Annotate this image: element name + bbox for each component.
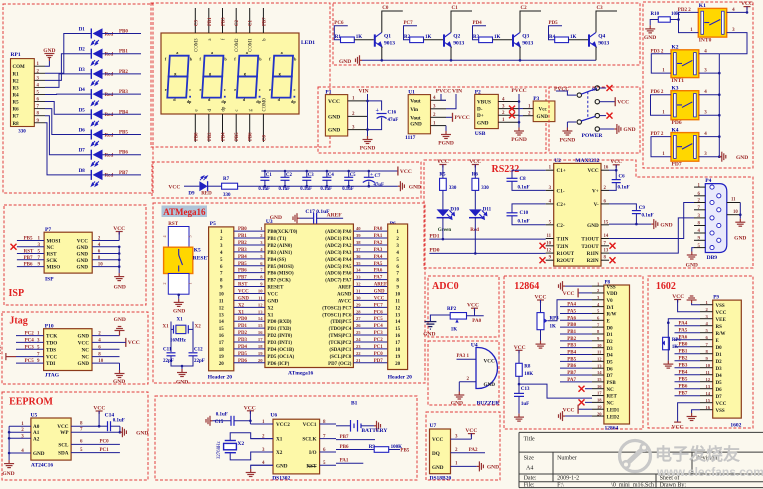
svg-text:PD7 (OC2): PD7 (OC2) [328, 362, 352, 367]
svg-text:VIN: VIN [452, 89, 462, 95]
wire P5 pin 9 to U3 [234, 286, 265, 288]
svg-text:15: 15 [395, 327, 401, 332]
svg-text:PB1: PB1 [238, 234, 247, 239]
wire R1 to Q1 base [354, 39, 374, 41]
DB9 pin 3 [694, 217, 705, 219]
svg-text:D1: D1 [607, 333, 614, 338]
svg-text:PB5: PB5 [679, 378, 688, 383]
wire U3 to P6 pin 7 [353, 272, 387, 274]
wire PC6 to base resistor R1 [334, 26, 348, 40]
svg-text:PC1: PC1 [100, 448, 110, 453]
svg-text:GND: GND [113, 379, 125, 385]
svg-text:(ADC5) PA5: (ADC5) PA5 [325, 265, 352, 270]
svg-text:GND: GND [276, 463, 288, 469]
svg-text:PC2: PC2 [374, 338, 384, 343]
svg-text:PB7: PB7 [340, 435, 349, 440]
svg-text:PB2: PB2 [679, 357, 688, 362]
svg-text:PVCC: PVCC [455, 115, 470, 121]
svg-text:e: e [165, 87, 167, 92]
svg-text:C10: C10 [520, 211, 529, 216]
svg-text:PD5: PD5 [238, 352, 248, 357]
wire P5 pin 7 to U3 [234, 272, 265, 274]
svg-text:16MHz: 16MHz [170, 339, 187, 344]
svg-text:PA5: PA5 [679, 329, 688, 334]
svg-text:0.1uF: 0.1uF [258, 187, 270, 192]
svg-text:PB2: PB2 [238, 241, 247, 246]
svg-text:I/O: I/O [309, 450, 317, 456]
svg-text:WP: WP [60, 430, 69, 436]
svg-text:10: 10 [706, 363, 711, 368]
svg-text:11: 11 [731, 198, 736, 203]
svg-text:R4: R4 [13, 93, 20, 98]
wire PD4 to base resistor R3 [473, 26, 487, 40]
wire R4 to Q4 base [569, 39, 589, 41]
svg-text:GND: GND [734, 236, 746, 242]
svg-text:PGND: PGND [360, 146, 376, 152]
wire R5 to D10 [442, 190, 444, 209]
svg-text:D2: D2 [607, 340, 614, 345]
svg-text:C9: C9 [639, 206, 646, 211]
svg-text:PC3: PC3 [25, 345, 35, 350]
wire U3 to P6 pin 5 [353, 258, 387, 260]
wire R6 to D11 [474, 190, 476, 209]
svg-text:(TOSC1) PC6: (TOSC1) PC6 [322, 313, 352, 318]
LED D9 RED power indicator [199, 181, 207, 191]
svg-text:PB6: PB6 [24, 263, 33, 268]
svg-text:15: 15 [706, 398, 711, 403]
svg-text:GND: GND [623, 127, 635, 133]
svg-text:Red: Red [470, 228, 479, 233]
svg-text:C14: C14 [105, 413, 115, 419]
svg-text:RP1: RP1 [11, 52, 21, 58]
svg-text:PC2: PC2 [25, 332, 35, 337]
wire P5 pin 3 to U3 [234, 244, 265, 246]
RP3 wiper to pin3 [548, 300, 593, 321]
U6 pin4 ground [251, 465, 273, 469]
svg-text:1K: 1K [494, 35, 501, 40]
svg-text:GND: GND [374, 289, 385, 294]
svg-text:PA3: PA3 [374, 248, 383, 253]
svg-text:PD2 (INT0): PD2 (INT0) [267, 334, 292, 339]
svg-text:VCC: VCC [672, 425, 684, 431]
svg-text:GND: GND [587, 223, 599, 229]
svg-text:VCC: VCC [716, 402, 727, 407]
1602 contrast pot [668, 319, 700, 338]
svg-text:C3: C3 [597, 6, 604, 11]
svg-text:PB7: PB7 [238, 276, 247, 281]
svg-text:VCC: VCC [267, 292, 278, 297]
svg-text:(ADC3) PA3: (ADC3) PA3 [325, 251, 352, 256]
svg-text:PA4: PA4 [567, 303, 576, 308]
svg-text:GND: GND [409, 185, 421, 191]
svg-text:MOSI: MOSI [47, 239, 61, 245]
svg-text:AREF: AREF [338, 286, 351, 291]
svg-text:(ADC2) PA2: (ADC2) PA2 [325, 244, 352, 249]
svg-text:GND: GND [114, 317, 126, 323]
junction at Q2 emitter [450, 59, 453, 62]
1602 pin1 to GND top [692, 303, 700, 305]
svg-text:C0: C0 [382, 6, 389, 11]
svg-text:PD1: PD1 [429, 233, 439, 239]
wire U3 to P6 pin 9 [353, 286, 387, 288]
svg-text:16: 16 [604, 166, 609, 171]
wire U3 to P6 pin 12 [353, 306, 387, 308]
RP1 pin 3 [34, 79, 45, 81]
svg-text:0.1uF: 0.1uF [518, 220, 530, 225]
wire D10 to PD1 line [442, 218, 444, 239]
S1 linkage dashed [587, 92, 589, 119]
svg-text:38: 38 [356, 240, 361, 245]
wires around K2 [651, 54, 671, 73]
svg-text:NC: NC [82, 347, 90, 353]
7-seg digit 2 dp dot [224, 96, 226, 98]
svg-text:VCC: VCC [238, 289, 249, 294]
svg-text:PA2: PA2 [374, 241, 383, 246]
P1 pin wires [348, 100, 368, 102]
svg-text:PC5: PC5 [25, 359, 35, 364]
GND right of C14 [120, 427, 127, 437]
svg-text:PB0: PB0 [567, 323, 576, 328]
svg-text:PB7: PB7 [679, 392, 688, 397]
svg-text:34: 34 [356, 268, 361, 273]
svg-text:VCC: VCC [374, 296, 385, 301]
wire D2 to port [103, 53, 142, 55]
svg-text:D10: D10 [450, 208, 459, 213]
svg-text:VCC: VCC [78, 340, 89, 346]
ground at RP1 COM pin [45, 61, 49, 66]
wire D9 to R7 [208, 185, 222, 187]
svg-text:U6: U6 [270, 413, 277, 419]
U6 left pins [250, 423, 273, 425]
svg-text:VCC: VCC [400, 169, 412, 175]
P10 left wires [16, 335, 44, 337]
section box LED array [3, 4, 153, 193]
GND from S1 [600, 128, 615, 130]
section box buzzer [428, 341, 499, 405]
7-seg top pin wire PB3 [222, 8, 224, 33]
svg-text:36: 36 [356, 254, 361, 259]
DB9 pin 5 [694, 247, 705, 249]
capacitor C3 0.1uF [306, 171, 308, 177]
svg-text:23: 23 [356, 344, 361, 349]
wire P5 pin 1 to U3 [234, 230, 265, 232]
svg-text:C1+: C1+ [557, 168, 566, 174]
capacitor C9 0.1uF [609, 204, 636, 211]
svg-text:c: c [294, 87, 296, 92]
svg-text:VCC: VCC [563, 291, 575, 297]
PA0 from RP2 [467, 315, 484, 317]
wire K5 to ground [178, 294, 180, 299]
svg-text:USB: USB [475, 131, 486, 137]
svg-text:PB5: PB5 [235, 132, 240, 141]
capacitor C7 47uF [368, 171, 370, 177]
svg-text:(TMS)PC3: (TMS)PC3 [329, 334, 352, 339]
svg-text:PB5: PB5 [24, 237, 33, 242]
svg-text:DB9: DB9 [707, 255, 718, 261]
svg-text:PB1: PB1 [679, 350, 688, 355]
svg-text:(ADC4) PA4: (ADC4) PA4 [325, 258, 352, 263]
U5 left pins [9, 425, 31, 427]
svg-text:12: 12 [597, 357, 602, 362]
RP1 pin 6 [34, 101, 45, 103]
section box power input [318, 87, 546, 153]
wire RP1 pin 8 to LED D7 [45, 116, 91, 155]
svg-text:D4: D4 [607, 354, 614, 359]
svg-text:GND: GND [328, 128, 340, 134]
svg-text:T1OUT: T1OUT [581, 237, 599, 243]
7-seg digit 1 [167, 56, 188, 98]
transistor Q3 9013 [513, 32, 520, 46]
X on S1 top unused contact [600, 87, 607, 89]
svg-text:Green: Green [438, 228, 451, 233]
svg-text:VCC: VCC [617, 100, 629, 106]
svg-text:(ADC7) PA7: (ADC7) PA7 [325, 279, 352, 284]
7-seg bottom pin wire PB6 [249, 114, 251, 142]
svg-text:TCK: TCK [46, 334, 57, 340]
7-seg bottom pin wire PB2 [208, 114, 210, 142]
wire D8 to port [103, 174, 142, 176]
RP1 pin 9 [34, 122, 45, 124]
svg-text:R6: R6 [13, 108, 20, 113]
svg-text:PA3 1: PA3 1 [457, 354, 470, 359]
svg-text:PB0: PB0 [679, 343, 688, 348]
wire R10 to ground [650, 20, 658, 26]
svg-text:AVCC: AVCC [338, 299, 352, 304]
svg-text:PB4: PB4 [679, 371, 688, 376]
7-seg bottom pin wire C0 [262, 114, 264, 142]
svg-text:13: 13 [597, 363, 602, 368]
section box 7-segment display [151, 3, 330, 147]
svg-text:PC4: PC4 [374, 324, 384, 329]
svg-text:X1: X1 [238, 310, 245, 315]
svg-text:R5: R5 [439, 172, 446, 177]
svg-text:17: 17 [395, 341, 401, 346]
wire U3 to P6 pin 6 [353, 265, 387, 267]
svg-text:21: 21 [356, 358, 361, 363]
svg-text:10K: 10K [524, 372, 533, 377]
svg-text:GND: GND [76, 245, 88, 251]
svg-text:(SCL)PC0: (SCL)PC0 [330, 355, 352, 360]
svg-text:1K: 1K [425, 35, 432, 40]
svg-text:PD0: PD0 [429, 248, 439, 254]
svg-text:R/W: R/W [607, 313, 617, 318]
svg-text:PB6: PB6 [249, 132, 254, 141]
svg-text:11: 11 [258, 295, 263, 300]
svg-text:PB2: PB2 [567, 337, 576, 342]
svg-text:11: 11 [546, 234, 551, 239]
P7 right wires [92, 240, 119, 242]
svg-text:PC0: PC0 [374, 352, 384, 357]
EEPROM address ground bus [8, 426, 10, 460]
svg-text:ATmega16: ATmega16 [288, 371, 314, 377]
wire PD1 to U2 T1IN [429, 238, 545, 240]
svg-text:VEE: VEE [716, 318, 727, 323]
svg-text:18: 18 [597, 398, 602, 403]
wire U3 to P6 pin 15 [353, 327, 387, 329]
svg-text:AT24C16: AT24C16 [31, 463, 53, 469]
svg-text:RST: RST [47, 252, 58, 258]
svg-text:X2: X2 [237, 441, 244, 447]
svg-text:10: 10 [219, 292, 225, 297]
4-digit 7-segment display LED1 [161, 33, 299, 114]
wire RP1 pin 9 to LED D8 [45, 123, 91, 175]
svg-text:D6: D6 [716, 388, 723, 393]
svg-text:GND: GND [238, 296, 249, 301]
svg-text:PB4 (SS): PB4 (SS) [267, 258, 286, 263]
svg-text:14: 14 [395, 320, 401, 325]
svg-text:RST: RST [238, 283, 248, 288]
capacitor C4 0.1uF [326, 171, 328, 177]
U7 pin1 to GND [451, 465, 477, 467]
svg-text:0.1uF: 0.1uF [216, 413, 228, 418]
GND at filter right [398, 181, 405, 191]
svg-text:PB5: PB5 [119, 131, 128, 136]
collector wire of Q1 to C0 [382, 11, 403, 32]
svg-text:PB5: PB5 [238, 262, 247, 267]
section box DS1302 [155, 396, 417, 480]
svg-text:35: 35 [356, 261, 361, 266]
7-seg top pin wire C3 [194, 8, 196, 33]
svg-text:20: 20 [395, 362, 401, 367]
svg-text:10: 10 [98, 263, 104, 268]
svg-text:VCC: VCC [128, 340, 140, 346]
P3 pin wires [523, 108, 533, 110]
svg-text:SDA: SDA [58, 451, 69, 457]
svg-text:D-: D- [477, 107, 483, 113]
wire R3 to Q3 base [493, 39, 513, 41]
svg-text:18: 18 [395, 348, 401, 353]
svg-text:PB0(XCK/T0): PB0(XCK/T0) [267, 230, 297, 235]
RP1 pin 4 [34, 86, 45, 88]
svg-text:R7: R7 [223, 177, 230, 182]
svg-text:BUZZER: BUZZER [477, 401, 501, 407]
section box transistor drivers [333, 3, 640, 65]
svg-text:19: 19 [219, 355, 225, 360]
svg-text:VIN: VIN [359, 89, 369, 95]
svg-text:PB6: PB6 [119, 151, 128, 156]
svg-text:PA7: PA7 [374, 276, 383, 281]
transistor Q1 9013 [375, 32, 382, 46]
section box RS232 [424, 160, 753, 268]
svg-text:VSS: VSS [607, 285, 616, 290]
wire RP1 pin 6 to LED D5 [45, 102, 91, 115]
svg-text:PB4: PB4 [238, 255, 247, 260]
S1 top pole [556, 91, 576, 95]
svg-text:1K: 1K [356, 35, 363, 40]
transistor Q2 9013 [444, 32, 451, 46]
emitter wire of Q4 [595, 47, 597, 61]
emitter wire of Q3 [519, 47, 521, 61]
section box EEPROM [2, 392, 148, 480]
svg-text:29: 29 [356, 302, 361, 307]
7-seg top pin wire PB1 [208, 8, 210, 33]
svg-text:DS1302: DS1302 [272, 476, 290, 482]
svg-text:VCC: VCC [465, 428, 477, 434]
svg-text:VCC: VCC [563, 407, 575, 413]
svg-text:VCC: VCC [77, 239, 88, 245]
svg-text:C7: C7 [375, 174, 381, 179]
wire P5 pin 4 to U3 [234, 251, 265, 253]
svg-text:ADC0: ADC0 [432, 281, 459, 292]
svg-text:27: 27 [356, 316, 361, 321]
svg-text:P5: P5 [210, 221, 216, 227]
svg-text:GND: GND [328, 114, 340, 120]
svg-text:D2: D2 [716, 360, 723, 365]
capacitor C10 0.1uF [512, 204, 546, 213]
svg-text:PB2: PB2 [208, 132, 213, 141]
P2 pin wires [498, 101, 519, 103]
7-seg top pin wire C1 [249, 8, 251, 33]
svg-text:PB5: PB5 [400, 448, 409, 453]
P10 right wires [92, 335, 120, 337]
svg-text:(ADC0) PA0: (ADC0) PA0 [325, 230, 352, 235]
U5 pin7 WP wire [71, 431, 120, 433]
svg-text:PB3: PB3 [222, 17, 227, 26]
svg-text:PA6: PA6 [374, 269, 383, 274]
svg-text:PD4 (OC1B): PD4 (OC1B) [267, 348, 294, 353]
svg-text:40: 40 [356, 226, 361, 231]
svg-text:1117: 1117 [405, 135, 416, 141]
emitter wire of Q1 [381, 47, 383, 61]
svg-text:PA0: PA0 [472, 319, 481, 324]
svg-text:16: 16 [597, 384, 602, 389]
svg-text:PD6: PD6 [238, 359, 248, 364]
wire D1 to port [103, 33, 142, 35]
RP2 wiper arrow [455, 319, 458, 322]
svg-text:PA5: PA5 [567, 309, 576, 314]
svg-text:PB4: PB4 [567, 351, 576, 356]
X marks on unused U2 pins [540, 243, 546, 249]
svg-text:GND: GND [43, 48, 55, 54]
svg-text:R1OUT: R1OUT [557, 251, 575, 257]
svg-text:D3: D3 [607, 347, 614, 352]
svg-text:9013: 9013 [522, 41, 533, 47]
svg-text:16: 16 [258, 330, 263, 335]
ground PGND of P1 [367, 130, 369, 136]
U6 right pins [320, 423, 336, 425]
svg-text:12864: 12864 [514, 281, 539, 292]
svg-text:R1: R1 [13, 72, 20, 77]
svg-text:VCC1: VCC1 [303, 422, 317, 428]
button ground bus [718, 54, 720, 157]
svg-text:PA4: PA4 [679, 322, 688, 327]
svg-text:PC4: PC4 [25, 338, 35, 343]
wire RP1 pin 4 to LED D3 [45, 74, 91, 88]
svg-text:10: 10 [546, 241, 551, 246]
svg-text:10: 10 [395, 292, 401, 297]
svg-text:X2: X2 [195, 324, 202, 329]
svg-text:14: 14 [258, 316, 263, 321]
svg-text:PA0: PA0 [374, 227, 383, 232]
wire P5 pin 16 to U3 [234, 334, 265, 336]
svg-text:C1: C1 [266, 173, 272, 178]
svg-text:PD7: PD7 [374, 359, 384, 364]
svg-text:16: 16 [219, 334, 225, 339]
svg-text:VCC: VCC [587, 168, 598, 174]
svg-text:X2: X2 [238, 303, 245, 308]
svg-text:17: 17 [597, 391, 602, 396]
wire P5 pin 8 to U3 [234, 279, 265, 281]
svg-text:Jtag: Jtag [9, 316, 27, 327]
7-seg bottom pin wire PB0 [194, 114, 196, 142]
svg-text:RED: RED [201, 192, 212, 197]
ground PGND of U1 [445, 126, 447, 131]
svg-text:Q3: Q3 [522, 34, 529, 40]
svg-text:10K: 10K [671, 12, 680, 17]
svg-text:47uF: 47uF [388, 118, 399, 123]
svg-text:e: e [269, 87, 271, 92]
svg-text:18: 18 [219, 348, 225, 353]
